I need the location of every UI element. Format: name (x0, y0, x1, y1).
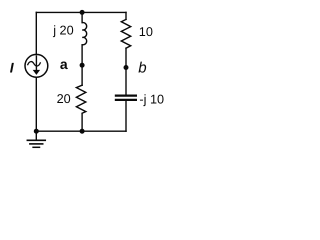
wire top horizontal (36, 11, 126, 13)
svg-text:j 20: j 20 (52, 24, 73, 38)
svg-text:b: b (138, 60, 146, 77)
wire right branch bottom (125, 101, 127, 131)
node b dot (124, 65, 129, 70)
wire right branch mid (125, 48, 127, 94)
svg-text:20: 20 (57, 92, 71, 106)
wire middle branch mid (81, 45, 83, 85)
capacitor -j10 (115, 94, 137, 96)
svg-text:a: a (60, 56, 68, 72)
junction dot bottom middle (80, 129, 85, 134)
junction dot top middle (80, 10, 85, 15)
junction dot bottom left (34, 129, 39, 134)
wire left branch lower (35, 77, 37, 131)
wire middle branch bottom (81, 114, 83, 131)
resistor 20 (76, 85, 85, 113)
node a dot (80, 63, 85, 68)
resistor 10 (121, 19, 130, 48)
current source I (AC) (25, 54, 48, 77)
svg-text:-j 10: -j 10 (139, 92, 164, 106)
wire bottom horizontal (36, 130, 126, 132)
wire middle branch top stub (81, 12, 83, 22)
ground (35, 131, 37, 139)
wire left branch upper (35, 12, 37, 54)
wire right branch top stub (125, 12, 127, 19)
inductor j20 (82, 23, 86, 45)
svg-text:10: 10 (139, 25, 153, 39)
